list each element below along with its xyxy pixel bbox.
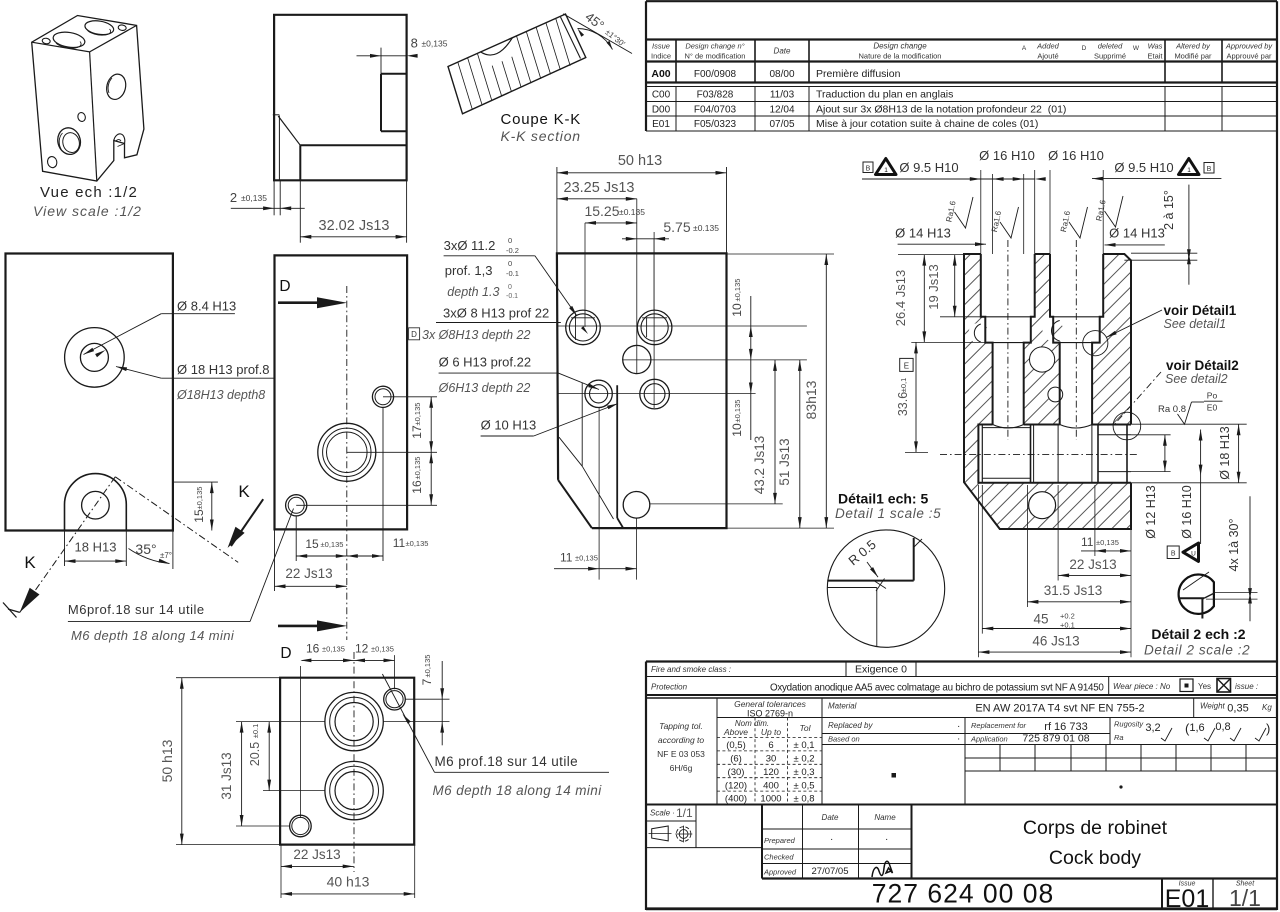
dimension 43.2 Js13: [752, 360, 777, 504]
section horizontal bore centerline: [940, 454, 1139, 456]
svg-text:D00: D00: [652, 105, 671, 116]
dimension 7 +-0.135: [383, 655, 449, 746]
svg-text:Ø 18 H13: Ø 18 H13: [1218, 426, 1232, 480]
revision row C00: [652, 89, 954, 101]
svg-text:Po: Po: [1207, 391, 1218, 401]
svg-text:EN AW 2017A T4 svt NF EN 755-2: EN AW 2017A T4 svt NF EN 755-2: [975, 703, 1144, 715]
svg-text:0: 0: [508, 284, 512, 291]
revision row A00: [651, 68, 900, 80]
general tolerances table: [717, 698, 822, 805]
tapping tolerance cell: [646, 698, 1277, 805]
svg-text:Protection: Protection: [651, 683, 688, 692]
svg-text:±0,135: ±0,135: [241, 193, 267, 203]
svg-text:120: 120: [763, 767, 779, 778]
svg-text:NF E 03 053: NF E 03 053: [657, 749, 705, 759]
side view right notch: [381, 74, 407, 131]
svg-text:voir Détail2: voir Détail2: [1166, 358, 1239, 373]
D-D top right hole: [372, 386, 393, 407]
svg-text:8: 8: [411, 36, 418, 51]
dimension 26.4 Js13: [893, 255, 985, 343]
svg-text:D: D: [280, 645, 291, 662]
svg-text:± 0,1: ± 0,1: [793, 740, 814, 751]
detail2 flag boxed B with triangle U: [1167, 543, 1198, 561]
bottom view big hole top: [325, 692, 383, 750]
material row: [822, 698, 1277, 718]
svg-text:1/1: 1/1: [676, 806, 693, 820]
svg-text:Tol: Tol: [799, 723, 811, 733]
svg-text:±0.135: ±0.135: [619, 207, 645, 217]
svg-text:16: 16: [410, 480, 424, 494]
svg-text:Ø 16 H10: Ø 16 H10: [1180, 485, 1194, 539]
svg-text:Name: Name: [874, 813, 896, 822]
svg-text:2: 2: [230, 190, 237, 205]
svg-text:Détail 2 ech :2: Détail 2 ech :2: [1151, 626, 1245, 642]
svg-text:43.2 Js13: 43.2 Js13: [752, 436, 767, 495]
dimension 31.5 Js13 section: [1027, 485, 1131, 607]
svg-text:D: D: [279, 278, 290, 295]
protection row: [651, 677, 1258, 696]
section line K-K chain: [20, 477, 239, 613]
svg-text:11: 11: [560, 551, 573, 565]
svg-text:N° de modification: N° de modification: [685, 52, 746, 61]
revision table frame: [646, 1, 1277, 131]
svg-text:Indice: Indice: [651, 52, 671, 61]
approved signature: [872, 861, 893, 877]
svg-text:issue :: issue :: [1235, 682, 1258, 691]
svg-text:E01: E01: [652, 119, 670, 130]
svg-text:Prepared: Prepared: [764, 836, 796, 845]
label voir detail1: [1106, 303, 1237, 338]
coupe K-K top notch arc: [481, 38, 513, 55]
svg-text:Detail 1 scale :5: Detail 1 scale :5: [835, 506, 941, 521]
svg-text:Scale ·: Scale ·: [650, 809, 675, 818]
front view hole middle: [623, 345, 651, 373]
svg-text:0,8: 0,8: [1215, 721, 1230, 733]
dimension 40h13: [281, 845, 415, 898]
title text corps de robinet: [1023, 817, 1168, 869]
svg-text:(400): (400): [725, 794, 747, 805]
label depth 1.3 italic: [447, 284, 518, 300]
svg-text:E0: E0: [1207, 403, 1218, 413]
svg-text:-0.1: -0.1: [506, 293, 518, 300]
svg-text:±0,1: ±0,1: [899, 378, 908, 393]
svg-text:1000: 1000: [760, 794, 781, 805]
detail1 marker circle: [1083, 331, 1108, 356]
svg-text:Ajout sur 3x Ø8H13 de la notat: Ajout sur 3x Ø8H13 de la notation profon…: [816, 104, 1066, 116]
svg-text:31 Js13: 31 Js13: [219, 752, 234, 799]
dimension 33.6 +-0.1 boxed E: [896, 342, 928, 452]
svg-text:3x Ø8H13 depth 22: 3x Ø8H13 depth 22: [422, 328, 530, 342]
svg-text:50 h13: 50 h13: [159, 739, 175, 782]
dimension 18 H13 keyhole: [65, 531, 127, 567]
svg-text:W: W: [1133, 45, 1140, 52]
dimension 50 h13: [557, 153, 727, 253]
svg-text:±0,135: ±0,135: [413, 403, 422, 426]
svg-text:Nature de la modification: Nature de la modification: [859, 52, 942, 61]
label diameter 10 H13: [481, 404, 618, 437]
svg-text:6: 6: [768, 740, 773, 751]
svg-text:Design change n°: Design change n°: [685, 42, 744, 51]
svg-text:Altered by: Altered by: [1175, 42, 1211, 51]
svg-text:± 0,3: ± 0,3: [793, 767, 814, 778]
svg-text:Up to: Up to: [761, 727, 782, 737]
section horizontal bore: [978, 425, 1131, 483]
svg-text:±0,135: ±0,135: [371, 645, 394, 654]
svg-text:1,6: 1,6: [1189, 722, 1204, 734]
dimension 20.5 +-0.1: [248, 722, 325, 791]
front view hole row1 right: [637, 310, 672, 345]
svg-text:Detail 2 scale :2: Detail 2 scale :2: [1144, 643, 1250, 658]
svg-text:F04/0703: F04/0703: [694, 105, 737, 116]
svg-text:7: 7: [420, 678, 434, 685]
label diameter 8.4 H13: [84, 299, 237, 358]
dimension 31 Js13: [219, 722, 325, 826]
label diameter 6H13 prof 22: [439, 355, 599, 390]
svg-text:727 624 00 08: 727 624 00 08: [872, 879, 1054, 909]
label Ra 0.8 with Po E0 flag: [1158, 391, 1223, 425]
D marker top: [278, 278, 347, 308]
dimension 11 +-0.135 front bottom: [554, 408, 637, 580]
label diameter 18 H13 prof.8: [116, 362, 274, 402]
svg-text:Coupe K-K: Coupe K-K: [501, 111, 582, 128]
svg-text:deleted: deleted: [1098, 42, 1123, 51]
label 3x 8H13 depth 22 boxed D: [409, 328, 531, 342]
svg-text:Ajouté: Ajouté: [1037, 52, 1058, 61]
svg-text:Issue: Issue: [652, 42, 670, 51]
label diameter 6H13 depth 22 italic: [438, 381, 531, 395]
svg-text:22 Js13: 22 Js13: [1069, 557, 1116, 572]
D-D view outline: [275, 255, 408, 529]
svg-text:0: 0: [508, 259, 512, 268]
prepared-checked-approved table: [762, 805, 1277, 879]
svg-text:General tolerances: General tolerances: [734, 699, 807, 709]
svg-text:±0,135: ±0,135: [733, 400, 742, 423]
svg-text:3xØ 8 H13 prof 22: 3xØ 8 H13 prof 22: [443, 306, 549, 321]
svg-text:26.4 Js13: 26.4 Js13: [893, 270, 908, 326]
dimension 11 +-0.135 section: [1081, 485, 1131, 657]
svg-text:±0,135: ±0,135: [322, 645, 345, 654]
isometric notch detail: [114, 134, 125, 147]
coupe K-K section bar: [448, 14, 586, 114]
svg-text:Ø6H13 depth 22: Ø6H13 depth 22: [438, 381, 531, 395]
detail2 extension lines: [1206, 593, 1258, 600]
svg-text:Ø 8.4 H13: Ø 8.4 H13: [177, 299, 236, 314]
isometric front face holes: [46, 112, 86, 169]
svg-text:15: 15: [192, 509, 206, 523]
svg-text:Ø 16 H10: Ø 16 H10: [1048, 148, 1104, 163]
dimension 45 degrees: [563, 9, 632, 54]
svg-text:±0.1: ±0.1: [251, 724, 260, 739]
svg-text:Modifié par: Modifié par: [1174, 52, 1212, 61]
svg-text:(120): (120): [725, 780, 747, 791]
svg-text:Based on: Based on: [828, 735, 860, 744]
svg-text:±0,135: ±0,135: [406, 539, 429, 548]
dimension 35 degrees: [129, 482, 173, 569]
svg-text:± 0,8: ± 0,8: [793, 794, 814, 805]
isometric right face hole: [104, 72, 128, 101]
svg-text:F05/0323: F05/0323: [694, 119, 737, 130]
front view hole row2 right: [640, 379, 670, 409]
svg-text:1: 1: [884, 167, 888, 174]
projection symbol cone: [649, 826, 672, 841]
D-D centerline: [346, 286, 348, 640]
svg-text:-0.2: -0.2: [506, 246, 519, 255]
svg-text:K-K section: K-K section: [501, 128, 581, 144]
svg-text:Approved: Approved: [763, 868, 797, 877]
svg-text:(0,5): (0,5): [726, 740, 746, 751]
svg-text:±0,135: ±0,135: [733, 279, 742, 302]
svg-text:Rugosity: Rugosity: [1114, 720, 1144, 729]
svg-text:Traduction du plan en anglais: Traduction du plan en anglais: [816, 89, 953, 101]
roughness Ra1.6 symbol 3: [1059, 207, 1088, 238]
svg-text:·: ·: [957, 734, 960, 745]
svg-text:+0.2: +0.2: [1060, 612, 1075, 621]
based on row: [822, 733, 1277, 745]
svg-text:D: D: [411, 330, 417, 339]
svg-text:07/05: 07/05: [769, 119, 794, 130]
title block frame: [646, 131, 1277, 910]
revision row D00: [652, 104, 1067, 116]
svg-text:400: 400: [763, 780, 779, 791]
svg-text:Wear piece : No: Wear piece : No: [1113, 682, 1171, 691]
dimension 10 +-0.135 lower: [730, 383, 753, 437]
dimension 15 +-0.135 bottom: [296, 408, 383, 562]
scale cell: [646, 805, 762, 848]
isometric block outline: [32, 16, 144, 182]
svg-text:Above: Above: [723, 727, 748, 737]
svg-text:Exigence 0: Exigence 0: [855, 664, 907, 676]
svg-text:Ø18H13 depth8: Ø18H13 depth8: [176, 388, 265, 402]
svg-text:Approuvé par: Approuvé par: [1226, 52, 1272, 61]
dimension 51 Js13: [727, 360, 835, 528]
svg-text:M6 prof.18 sur 14 utile: M6 prof.18 sur 14 utile: [435, 754, 579, 769]
rugosity cell: [1110, 718, 1270, 745]
svg-text:Etait: Etait: [1147, 52, 1163, 61]
svg-text:·: ·: [885, 834, 888, 845]
svg-text:Added: Added: [1036, 42, 1060, 51]
dimension 22 Js13 bottom view: [281, 845, 354, 898]
detail1 circle: [827, 530, 944, 647]
svg-text:Date: Date: [774, 47, 791, 56]
empty grid cells: [892, 745, 1278, 805]
svg-text:A: A: [1022, 45, 1027, 52]
section bore 1: [981, 254, 1035, 425]
dimension diameter 9.5 H10 right: [1092, 159, 1221, 181]
dimension diameter 14 H13 right: [1105, 226, 1165, 247]
front view hole row1 left: [566, 310, 601, 345]
svg-text:±0,135: ±0,135: [575, 554, 598, 563]
svg-text:3,2: 3,2: [1145, 722, 1160, 734]
bottom view small hole bottom left: [290, 815, 312, 837]
dimension 2 +-0.135: [230, 180, 305, 215]
dimension 45 +0.2+0.1 section: [982, 485, 1131, 634]
svg-text:10: 10: [730, 423, 744, 437]
svg-text:Weight: Weight: [1200, 702, 1226, 711]
detail2 shape: [1179, 572, 1214, 619]
svg-text:31.5 Js13: 31.5 Js13: [1044, 583, 1103, 598]
replaced by row: [822, 718, 1110, 745]
svg-text:): ): [1266, 721, 1270, 736]
svg-text:F03/828: F03/828: [697, 90, 734, 101]
section arrow K bottom left: [3, 553, 40, 618]
label M6 prof 18 bottom view: [382, 674, 609, 772]
dimension 32.02 Js13: [300, 180, 406, 242]
front view construction lines: [558, 199, 807, 504]
dimension 15 +-0.135 left view: [172, 482, 218, 530]
detail2 marker circle: [1113, 412, 1141, 440]
svg-text:Replacement for: Replacement for: [971, 721, 1027, 730]
svg-text:±0,135: ±0,135: [1096, 538, 1119, 547]
section arrow K top right: [228, 482, 264, 548]
svg-text:B: B: [866, 166, 871, 173]
detail2 caption: [1144, 626, 1250, 658]
D marker bottom: [278, 620, 347, 662]
svg-text:Yes: Yes: [1198, 682, 1211, 691]
caption coupe K-K: [501, 111, 582, 144]
dimension diameter 9.5 H10 left: [862, 159, 1046, 255]
svg-text:voir Détail1: voir Détail1: [1164, 303, 1237, 318]
svg-text:12: 12: [355, 642, 369, 656]
svg-text:27/07/05: 27/07/05: [812, 866, 849, 877]
svg-text:Replaced by: Replaced by: [828, 721, 873, 730]
svg-text:E01: E01: [1165, 885, 1209, 912]
svg-text:Ra 0.8: Ra 0.8: [1158, 404, 1186, 415]
svg-text:3xØ 11.2: 3xØ 11.2: [444, 238, 496, 253]
svg-text:B: B: [1207, 166, 1212, 173]
svg-text:22 Js13: 22 Js13: [285, 566, 332, 581]
svg-text:±0,135: ±0,135: [423, 655, 432, 678]
svg-text:±0,135: ±0,135: [321, 540, 344, 549]
dimension 15.25 +-0.135: [584, 203, 645, 225]
dimension 10 +-0.135 upper: [730, 279, 753, 440]
section body hatch fill: [964, 254, 1131, 529]
svg-text:rf 16 733: rf 16 733: [1044, 721, 1087, 733]
svg-text:Application: Application: [970, 735, 1008, 744]
front view hole bottom: [623, 492, 650, 519]
svg-text:Date: Date: [822, 813, 839, 822]
svg-text:B: B: [1171, 551, 1176, 558]
dimension 22 Js13: [275, 529, 347, 591]
svg-text:±7°: ±7°: [160, 551, 172, 560]
svg-text:12/04: 12/04: [769, 105, 794, 116]
svg-text:K: K: [24, 553, 36, 572]
dimension 16 and 12 top: [300, 642, 394, 819]
svg-text:50 h13: 50 h13: [618, 153, 662, 169]
svg-text:15: 15: [305, 537, 319, 551]
svg-text:Ø 14 H13: Ø 14 H13: [895, 226, 951, 241]
svg-text:46 Js13: 46 Js13: [1032, 634, 1079, 649]
roughness Ra1.6 symbol 2: [990, 207, 1019, 238]
revision row E01: [652, 118, 1038, 130]
svg-text:M6prof.18 sur 14 utile: M6prof.18 sur 14 utile: [68, 602, 205, 617]
svg-text:Design change: Design change: [873, 42, 927, 51]
svg-text:Ø 18 H13 prof.8: Ø 18 H13 prof.8: [177, 362, 270, 377]
front view outline: [557, 253, 727, 528]
svg-text:Checked: Checked: [764, 853, 794, 862]
svg-text:Oxydation anodique AA5 avec co: Oxydation anodique AA5 avec colmatage au…: [770, 683, 1104, 694]
caption vue ech 1/2: [33, 184, 142, 219]
svg-text:Ø 9.5 H10: Ø 9.5 H10: [1114, 160, 1173, 175]
svg-text:17: 17: [410, 425, 424, 439]
label 3x diameter 11.2: [444, 236, 577, 316]
svg-text:20.5: 20.5: [248, 742, 262, 766]
svg-text:18 H13: 18 H13: [75, 540, 117, 555]
svg-text:M6 depth 18 along 14 mini: M6 depth 18 along 14 mini: [71, 628, 235, 643]
svg-text:Ra: Ra: [1114, 733, 1124, 742]
svg-text:according to: according to: [658, 735, 705, 745]
svg-text:M6 depth 18 along 14 mini: M6 depth 18 along 14 mini: [433, 783, 603, 798]
dimension diameter 14 H13 left: [895, 226, 986, 247]
detail1 caption: [835, 491, 941, 522]
svg-text:2 à 15°: 2 à 15°: [1162, 190, 1176, 230]
svg-text:-0.1: -0.1: [506, 269, 519, 278]
detail1 R0.5 label: [845, 537, 886, 591]
svg-text:6H/6g: 6H/6g: [670, 763, 693, 773]
roughness Ra1.6 symbol 1: [944, 197, 973, 228]
label M6 prof 18 left: [68, 509, 294, 622]
svg-text:See detail2: See detail2: [1165, 372, 1228, 386]
svg-text:08/00: 08/00: [769, 69, 794, 80]
left view outline: [6, 254, 173, 531]
svg-text:725 879 01 08: 725 879 01 08: [1022, 733, 1089, 745]
svg-text:E: E: [904, 361, 909, 370]
svg-text:Fire and smoke class :: Fire and smoke class :: [651, 665, 731, 674]
svg-text:±0,135: ±0,135: [195, 487, 204, 510]
svg-text:Mise à jour cotation suite à c: Mise à jour cotation suite à chaine de c…: [816, 118, 1038, 130]
svg-text:C00: C00: [652, 90, 671, 101]
bottom view centerline: [353, 652, 355, 872]
svg-text:Tapping tol.: Tapping tol.: [659, 721, 703, 731]
svg-text:prof. 1,3: prof. 1,3: [445, 263, 493, 278]
svg-text:19 Js13: 19 Js13: [926, 264, 941, 310]
svg-text:Approuved by: Approuved by: [1225, 42, 1274, 51]
svg-text:Cock body: Cock body: [1049, 847, 1141, 869]
svg-text:11: 11: [393, 536, 406, 550]
projection symbol circle: [675, 826, 692, 843]
bottom view small hole top right: [384, 688, 406, 710]
svg-text:4x 1à 30°: 4x 1à 30°: [1227, 519, 1241, 572]
side view outline: [274, 15, 407, 181]
dimension 23.25 Js13: [557, 180, 637, 201]
left view keyhole boss: [65, 474, 127, 531]
dimension diameter 18H13: [1131, 424, 1247, 483]
dimension diameter 12 H13: [1131, 435, 1171, 539]
svg-text:View scale :1/2: View scale :1/2: [33, 203, 142, 219]
svg-text:32.02 Js13: 32.02 Js13: [319, 218, 390, 234]
svg-text:± 0,2: ± 0,2: [793, 754, 814, 765]
label 3x diameter 8 H13 prof 22: [436, 306, 561, 323]
svg-text:±0,135: ±0,135: [422, 39, 448, 49]
svg-text:Corps de robinet: Corps de robinet: [1023, 817, 1168, 839]
D-D bottom left hole: [286, 495, 307, 516]
front view corner pocket: [559, 383, 623, 528]
svg-text:0: 0: [508, 236, 512, 245]
dimension diameter 16H10 bore2: [1048, 148, 1104, 254]
svg-text:40 h13: 40 h13: [327, 874, 370, 890]
svg-text:Ø 9.5 H10: Ø 9.5 H10: [899, 160, 958, 175]
label voir detail2: [1113, 358, 1239, 426]
dimension 4x 1 a 30 deg: [1227, 496, 1252, 621]
drawing number 727 624 00 08: [872, 879, 1054, 909]
dimension 17 +-0.135: [347, 397, 437, 453]
roughness Ra1.6 symbol 4: [1094, 196, 1123, 227]
dimension 22 Js13 section: [1058, 485, 1131, 581]
svg-text:16: 16: [306, 642, 320, 656]
svg-text:45: 45: [1033, 612, 1048, 627]
svg-text:(6): (6): [730, 754, 742, 765]
svg-text:5.75: 5.75: [663, 219, 690, 235]
svg-text:Première diffusion: Première diffusion: [816, 68, 901, 80]
